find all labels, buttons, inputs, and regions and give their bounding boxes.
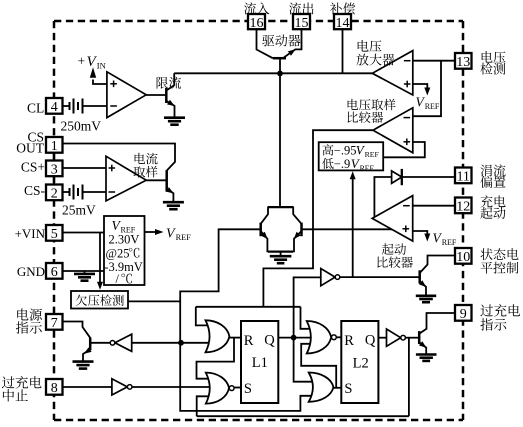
- battery 250mV at pin4: [70, 99, 83, 114]
- wire VREF branch down to undervoltage detect: [99, 233, 101, 283]
- svg-text:REF: REF: [365, 150, 380, 159]
- OR gate G1 (L1 R): [206, 320, 230, 352]
- IC boundary dashed border top: [54, 20, 463, 23]
- label VREF at start comparator: [433, 230, 457, 247]
- wire buffer U4 output to NOR gate G2 middle input: [132, 386, 210, 388]
- svg-text:10: 10: [456, 250, 470, 265]
- wire L1 Q node down to OR gate G4 top input: [294, 338, 312, 382]
- wire bottom rail up to U5 output net: [408, 338, 410, 417]
- label CS+: [21, 159, 45, 174]
- comparator voltage-sample: [373, 108, 413, 153]
- wire current-limit amp output to Q1 base: [146, 94, 165, 96]
- ground at Q5 emitter: [416, 296, 436, 302]
- svg-text:R: R: [344, 333, 354, 349]
- wire comparator route horizontal rail: [196, 306, 301, 308]
- wire VREF output: [145, 231, 157, 233]
- threshold box text line2: [322, 156, 374, 172]
- svg-text:8: 8: [51, 381, 58, 396]
- wire Q6 emitter to ground: [419, 342, 426, 354]
- wire L2 Q output to inverter U5: [378, 337, 386, 339]
- label current-limit: [157, 77, 181, 89]
- wire G1 output feedback to NOR gate G2 top input: [197, 338, 235, 379]
- wire battery to current-limit amp inverting input: [83, 105, 107, 107]
- transistor Q6 at pin9: [419, 331, 427, 348]
- label +VIN pin5: [15, 226, 46, 241]
- wire rail to OR gate G1 top input: [196, 307, 214, 326]
- pin 10 box: [455, 248, 472, 265]
- svg-text:REF: REF: [442, 238, 457, 247]
- arrow VREF at start comparator: [424, 234, 430, 242]
- label current-sample: [133, 153, 157, 178]
- svg-text:Q: Q: [365, 333, 376, 349]
- IC boundary dashed border left: [53, 21, 56, 420]
- wire ground stub on pin6 net: [84, 271, 86, 273]
- svg-text:L1: L1: [252, 355, 268, 371]
- VREF reference box: [104, 216, 145, 285]
- svg-text:REF: REF: [425, 102, 440, 111]
- wire inverter U5 output to Q6 base: [405, 337, 419, 339]
- wire L1 Q node up to inverter U2 input: [294, 277, 321, 337]
- ground at Q1 emitter: [164, 118, 185, 125]
- pin 16 box: [248, 14, 265, 31]
- pin 3 box: [46, 161, 63, 178]
- wire Q5 collector to pin10: [420, 256, 455, 274]
- svg-text:GND: GND: [17, 264, 45, 279]
- svg-text:5: 5: [51, 227, 58, 242]
- wire pin14 compensation drop to node A: [342, 29, 344, 73]
- svg-text:@25: @25: [106, 246, 130, 260]
- ground at pin6 net: [74, 274, 95, 281]
- svg-text:IN: IN: [97, 60, 106, 70]
- wire pin5 to VREF block: [62, 232, 104, 234]
- NOR gate G2 (L1 S): [206, 373, 234, 404]
- op-amp current-limit (xian liu): [107, 72, 146, 118]
- label overcharge terminate: [2, 376, 42, 402]
- label driver: [262, 35, 300, 47]
- wire stub pin1-pin3: [53, 152, 55, 161]
- wire driver collector to node A: [279, 58, 281, 73]
- wire Q1 emitter to ground: [166, 101, 174, 118]
- svg-text:CL: CL: [27, 101, 44, 116]
- ground at transistor pair: [270, 256, 292, 263]
- wire bottom rail: [197, 415, 409, 417]
- op-amp voltage amplifier: [372, 51, 413, 95]
- wire start comparator noninverting input to VREF arrow: [413, 231, 428, 236]
- wire NOR gate G2 output to L1 S input: [234, 387, 241, 389]
- svg-text:6: 6: [51, 265, 58, 280]
- svg-text:25mV: 25mV: [62, 203, 96, 218]
- transistor Q2 current-sample: [166, 170, 174, 193]
- wire Q2 emitter to ground: [167, 189, 174, 202]
- svg-text:REF: REF: [360, 163, 375, 172]
- pin 8 box: [46, 379, 63, 396]
- wire Q6 collector to pin9: [419, 313, 455, 334]
- label start comparator: [377, 243, 413, 268]
- svg-text:/: /: [116, 272, 120, 286]
- IC boundary dashed border right: [462, 21, 465, 420]
- label VREF at voltage amp: [416, 95, 440, 112]
- wire sample comparator output route: [263, 130, 373, 307]
- label VREF output: [166, 227, 191, 243]
- wire start comparator output to diode anode: [374, 177, 391, 217]
- label pin16 liu-ru: [244, 2, 269, 14]
- battery 25mV at pin2: [70, 185, 83, 200]
- svg-text:2.30V: 2.30V: [109, 233, 140, 247]
- svg-text:14: 14: [336, 16, 350, 31]
- threshold box text line1: [322, 143, 379, 159]
- svg-text:−.9: −.9: [334, 157, 350, 171]
- wire OR gate G1 output to L1 R input: [229, 337, 241, 339]
- wire top net node A (driver collector rail): [174, 72, 372, 74]
- wire bottom rail to NOR gate G2 bottom input: [197, 396, 214, 416]
- wire Q3 emitter to ground: [83, 350, 90, 362]
- OR gate G4 (L2 S): [309, 373, 334, 402]
- wire G4 output feedback to NOR gate G3 bottom input: [301, 344, 336, 388]
- wire pin12 to start comparator inverting input: [413, 205, 455, 207]
- pin 7 box: [46, 314, 63, 331]
- svg-text:CS-: CS-: [24, 183, 46, 198]
- NOR gate G3 (L2 R): [307, 321, 337, 354]
- junction L1 Q node: [291, 335, 297, 341]
- junction node A: [277, 71, 283, 77]
- transistor Q-driver: [273, 49, 296, 58]
- svg-text:S: S: [344, 381, 352, 397]
- wire driver emitter to pin15: [295, 29, 302, 49]
- wire Q1 collector to top net: [166, 73, 174, 90]
- wire battery to current-sample amp inverting input: [83, 191, 107, 193]
- inverter U5 at pin9: [387, 329, 406, 346]
- wire pin4 to battery: [62, 105, 70, 107]
- svg-text:12: 12: [456, 200, 470, 215]
- wire threshold box select line: [352, 178, 354, 277]
- transistor Q5 at pin10: [419, 270, 427, 287]
- transistor Q3 at pin7: [84, 338, 92, 354]
- label +VIN: [78, 54, 106, 71]
- label pin14 bu-chang: [330, 2, 355, 14]
- label pin13 voltage-detect: [480, 51, 505, 75]
- svg-text:11: 11: [456, 170, 469, 185]
- svg-text:2: 2: [51, 187, 58, 202]
- pin 6 box: [46, 263, 63, 280]
- wire rail to NOR gate G3 top input: [301, 307, 314, 329]
- svg-text:1: 1: [51, 139, 58, 154]
- pin 2 box: [46, 185, 63, 202]
- undervoltage detect box: [71, 291, 128, 309]
- pin 4 box: [46, 98, 63, 115]
- label voltage amplifier: [356, 40, 394, 66]
- buffer U4 at pin8: [112, 379, 132, 395]
- svg-text:7: 7: [51, 316, 58, 331]
- latch L2 box: [341, 321, 378, 403]
- label CS-: [24, 183, 46, 198]
- pin 12 box: [455, 198, 472, 215]
- label pin15 liu-chu: [289, 2, 313, 14]
- svg-text:15: 15: [295, 16, 309, 31]
- svg-text:S: S: [244, 381, 252, 397]
- pin 14 box: [334, 14, 351, 31]
- ground at Q2 emitter: [163, 202, 184, 209]
- diode D1: [392, 169, 402, 185]
- wire pin8 to buffer U4 input: [62, 386, 112, 388]
- svg-text:16: 16: [250, 16, 264, 31]
- svg-text:R: R: [244, 333, 254, 349]
- wire pin6 GND to VREF block: [62, 270, 104, 272]
- svg-text:V: V: [166, 227, 176, 242]
- svg-text:4: 4: [51, 100, 58, 115]
- pin 5 box: [46, 225, 63, 242]
- wire current-sample amp output to Q2 base: [146, 179, 165, 181]
- inverter U3 at pin7: [110, 334, 132, 351]
- threshold select box: [319, 142, 384, 170]
- pin 1 box: [46, 137, 63, 154]
- arrow into threshold box: [350, 171, 356, 179]
- label 25mV: [62, 203, 96, 218]
- wire undervoltage-detect output: [128, 300, 180, 302]
- svg-text:L2: L2: [353, 355, 369, 371]
- wire pin16 to driver base: [257, 29, 273, 58]
- wire L1 Q output: [278, 337, 313, 339]
- wire latch rail to inverter U3 and OR gate G1 bottom input: [90, 342, 213, 344]
- wire pin1 to Q2 collector: [62, 144, 175, 171]
- pin 13 box: [455, 53, 472, 70]
- comparator start-up: [372, 196, 413, 241]
- svg-text:13: 13: [456, 55, 470, 70]
- pin 15 box: [293, 14, 310, 31]
- pin 11 box: [455, 168, 472, 185]
- wire Q5 emitter to ground: [420, 282, 426, 296]
- IC boundary dashed border bottom: [54, 419, 463, 422]
- label CS OUT: [16, 130, 44, 156]
- ground at Q6 emitter: [416, 355, 437, 361]
- svg-text:+VIN: +VIN: [15, 226, 46, 241]
- wire pin3 to current-sample amp noninverting input: [62, 167, 106, 169]
- VREF box text: [104, 218, 143, 286]
- label pin10 status-level-control: [481, 248, 519, 273]
- transistor pair Q4a/Q4b: [261, 207, 302, 253]
- pin 9 box: [455, 305, 472, 322]
- arrow into undervoltage detect box: [97, 282, 103, 290]
- wire pin13 to voltage amp inverting input: [413, 60, 455, 62]
- wire pin13 branch down to sample comparator inverting input: [413, 61, 441, 116]
- wire NOR gate G3 output to L2 R input: [336, 336, 341, 338]
- wire left base route (uv/latch rail): [180, 229, 311, 411]
- label pin9 overcharge-indicate: [480, 304, 520, 331]
- wire voltage amp noninverting input to VREF arrow: [413, 84, 428, 89]
- wire OR gate G4 output to L2 S input: [333, 387, 341, 389]
- wire pin2 to battery: [62, 191, 70, 193]
- label 250mV: [61, 118, 102, 133]
- svg-text:3: 3: [51, 163, 58, 178]
- svg-text:-3.9mV: -3.9mV: [104, 260, 143, 274]
- label pin11 trickle-bias: [480, 164, 505, 188]
- ground at Q3 emitter: [73, 362, 94, 369]
- label voltage-sample comparator: [348, 99, 396, 123]
- wire pin7 to Q3 collector: [62, 322, 90, 338]
- label pin12 charge-start: [480, 195, 505, 219]
- wire sample comparator noninverting input to threshold box: [383, 142, 425, 157]
- wire +VIN supply to current-limit amp noninverting input: [93, 80, 107, 85]
- arrow VREF output: [155, 229, 164, 235]
- latch L1 labels: [244, 333, 276, 398]
- svg-text:REF: REF: [176, 233, 192, 242]
- wire node A down to transistor pair: [279, 73, 281, 207]
- transistor Q1 current-limit: [166, 88, 175, 106]
- label CL: [27, 101, 44, 116]
- inverter U2: [321, 269, 340, 286]
- svg-text:CS+: CS+: [21, 159, 45, 174]
- svg-text:9: 9: [460, 307, 467, 322]
- junction latch rail / pin7 net: [178, 340, 184, 346]
- op-amp current-sample: [106, 156, 146, 201]
- svg-text:OUT: OUT: [16, 140, 44, 155]
- svg-text:250mV: 250mV: [61, 118, 102, 133]
- svg-text:+: +: [78, 54, 86, 69]
- wire transistor pair ground drop: [280, 252, 282, 256]
- label GND pin6: [17, 264, 45, 279]
- wire inverter U2 output to Q5 base: [340, 276, 420, 278]
- wire diode cathode to pin11: [402, 176, 455, 178]
- wire stub pin3-pin2: [53, 176, 55, 185]
- label power indicate: [16, 308, 42, 333]
- arrow +VIN supply: [90, 67, 96, 78]
- label undervoltage detect: [76, 295, 124, 306]
- svg-text:Q: Q: [264, 333, 275, 349]
- arrow VREF at voltage amp: [424, 88, 430, 96]
- latch L2 labels: [344, 333, 376, 397]
- wire right base to start comparator: [302, 228, 394, 230]
- latch L1 box: [241, 321, 278, 403]
